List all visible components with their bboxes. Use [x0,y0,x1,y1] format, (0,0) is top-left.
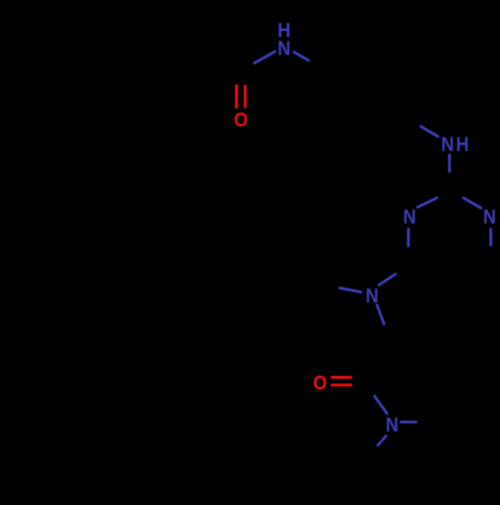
svg-text:N: N [278,38,291,60]
svg-text:N: N [441,134,454,156]
svg-text:N: N [483,206,496,228]
svg-text:O: O [313,372,327,394]
svg-text:N: N [386,414,399,436]
svg-text:N: N [366,285,379,307]
svg-text:O: O [234,109,248,131]
svg-text:N: N [403,206,416,228]
svg-text:H: H [456,134,469,156]
